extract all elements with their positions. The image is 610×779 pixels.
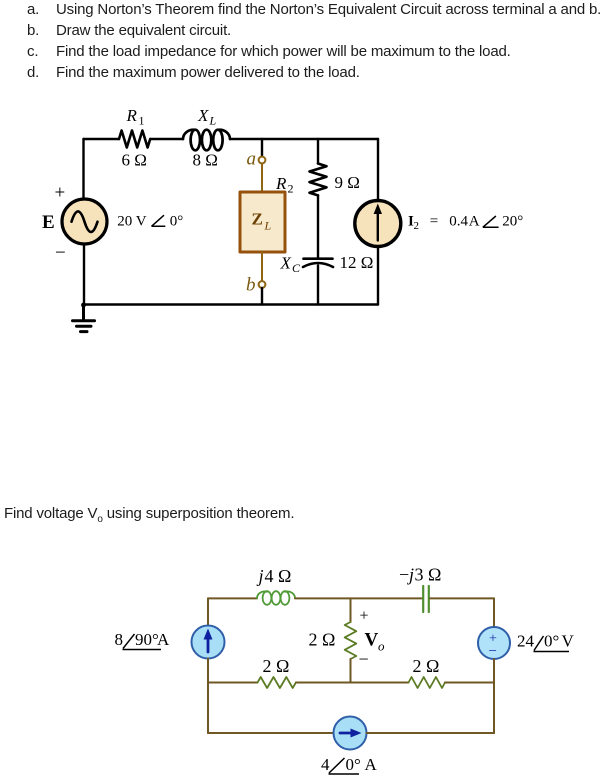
wire b to bottom rail bbox=[261, 288, 263, 305]
svg-text:20 V: 20 V bbox=[117, 214, 146, 230]
wire top rail right bbox=[430, 597, 494, 599]
wire middle rail center bbox=[296, 682, 409, 684]
svg-text:8: 8 bbox=[115, 630, 124, 649]
svg-text:0°: 0° bbox=[544, 632, 559, 651]
resistor 2ohm vertical bbox=[345, 622, 357, 659]
wire left edge upper bbox=[82, 139, 84, 200]
svg-text:L: L bbox=[264, 219, 272, 233]
problem statement lines bbox=[27, 1, 601, 18]
svg-text:=: = bbox=[430, 214, 438, 230]
voltage source E bbox=[62, 199, 107, 244]
wire left edge lower bbox=[83, 244, 85, 305]
svg-text:20°: 20° bbox=[502, 214, 523, 230]
svg-text:X: X bbox=[197, 106, 209, 125]
svg-text:2: 2 bbox=[288, 182, 294, 196]
svg-text:V: V bbox=[562, 632, 575, 651]
wire ZL to terminal b bbox=[261, 252, 263, 281]
svg-text:a: a bbox=[247, 149, 257, 170]
node a terminal bbox=[259, 157, 266, 164]
svg-text:−: − bbox=[489, 644, 497, 660]
svg-text:9 Ω: 9 Ω bbox=[335, 173, 360, 192]
svg-text:R: R bbox=[275, 174, 287, 193]
svg-text:Z: Z bbox=[252, 210, 263, 229]
svg-text:o: o bbox=[378, 639, 385, 654]
wire bottom rail right bbox=[367, 732, 495, 734]
wire right edge lower bbox=[493, 659, 495, 733]
resistor 2ohm right bbox=[409, 677, 446, 688]
wire middle rail right bbox=[445, 682, 494, 684]
node junction at ground bbox=[81, 303, 86, 308]
wire right edge upper bbox=[493, 598, 495, 627]
svg-text:2 Ω: 2 Ω bbox=[309, 630, 336, 650]
svg-text:2 Ω: 2 Ω bbox=[413, 656, 440, 676]
wire top rail middle bbox=[295, 597, 422, 599]
wire middle branch upper bbox=[350, 598, 352, 622]
svg-text:−: − bbox=[399, 565, 409, 585]
wire R2 branch upper bbox=[317, 139, 319, 164]
svg-text:6 Ω: 6 Ω bbox=[122, 151, 147, 170]
svg-text:90°: 90° bbox=[135, 630, 159, 649]
wire left edge upper bbox=[207, 598, 209, 625]
svg-text:V: V bbox=[365, 630, 379, 651]
svg-text:j: j bbox=[407, 565, 414, 585]
svg-text:0°: 0° bbox=[346, 755, 361, 774]
svg-text:1: 1 bbox=[139, 114, 145, 128]
wire bottom rail bbox=[84, 303, 379, 305]
svg-text:12 Ω: 12 Ω bbox=[340, 253, 374, 272]
svg-text:3 Ω: 3 Ω bbox=[415, 565, 442, 585]
svg-text:0°: 0° bbox=[170, 214, 184, 230]
wire top-left segment bbox=[84, 138, 120, 140]
svg-text:−: − bbox=[359, 649, 369, 669]
svg-text:L: L bbox=[209, 114, 217, 128]
capacitor -j3 bbox=[423, 586, 429, 612]
wire left edge lower bbox=[207, 659, 209, 734]
svg-text:A: A bbox=[469, 214, 480, 230]
resistor 2ohm left bbox=[258, 677, 296, 688]
svg-text:+: + bbox=[55, 183, 66, 204]
wire right edge lower bbox=[377, 247, 379, 305]
mid instruction bbox=[4, 505, 294, 528]
capacitor XC bbox=[303, 259, 333, 267]
wire XC to bottom bbox=[317, 266, 319, 305]
wire right edge upper bbox=[377, 139, 379, 201]
svg-text:2 Ω: 2 Ω bbox=[263, 656, 290, 676]
svg-text:8 Ω: 8 Ω bbox=[193, 151, 218, 170]
current source I2 bbox=[355, 201, 401, 247]
current source 4/0 bbox=[334, 717, 367, 750]
wire middle rail left bbox=[208, 682, 258, 684]
svg-text:A: A bbox=[157, 630, 170, 649]
wire XL to right edge bbox=[230, 138, 378, 140]
wire between R1 and XL bbox=[151, 138, 184, 140]
node b terminal bbox=[259, 281, 266, 288]
voltage source 24/0 bbox=[478, 627, 510, 659]
current source 8/90 bbox=[192, 626, 225, 659]
svg-text:−: − bbox=[55, 243, 66, 264]
wire R2 to XC bbox=[317, 196, 319, 259]
ground bbox=[73, 305, 95, 332]
svg-text:b: b bbox=[246, 275, 256, 296]
svg-text:4 Ω: 4 Ω bbox=[265, 566, 292, 586]
svg-text:4: 4 bbox=[321, 755, 330, 774]
svg-text:+: + bbox=[360, 608, 369, 625]
svg-text:A: A bbox=[365, 755, 378, 774]
resistor R2 bbox=[310, 164, 327, 196]
wire a to ZL box bbox=[261, 164, 263, 193]
svg-text:C: C bbox=[292, 261, 301, 275]
wire top rail left bbox=[208, 597, 257, 599]
inductor XL bbox=[183, 130, 230, 151]
inductor j4 bbox=[257, 591, 295, 605]
wire bottom rail left bbox=[208, 732, 334, 734]
svg-text:E: E bbox=[42, 212, 55, 233]
wire middle branch lower bbox=[350, 659, 352, 683]
svg-text:24: 24 bbox=[517, 632, 535, 651]
svg-text:j: j bbox=[257, 566, 264, 586]
load impedance ZL box bbox=[240, 192, 285, 252]
wire stub to terminal a bbox=[261, 139, 263, 156]
resistor R1 bbox=[119, 131, 150, 148]
svg-text:X: X bbox=[280, 253, 292, 272]
svg-text:2: 2 bbox=[414, 220, 420, 232]
svg-text:0.4: 0.4 bbox=[449, 214, 468, 230]
svg-text:R: R bbox=[126, 106, 138, 125]
